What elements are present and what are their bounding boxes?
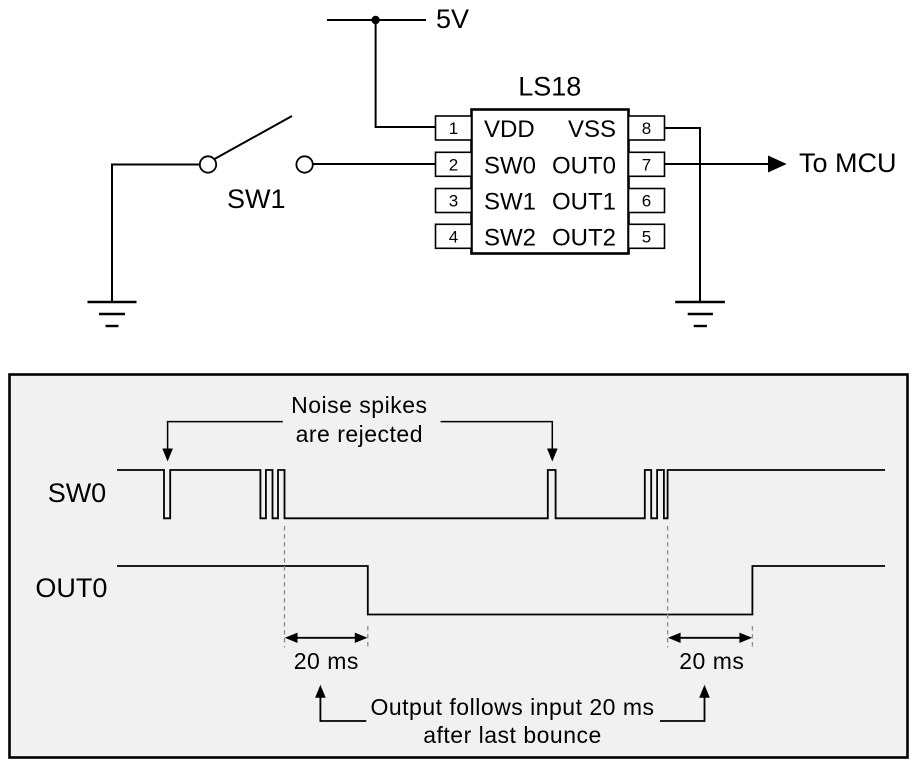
svg-text:20 ms: 20 ms xyxy=(294,648,359,674)
svg-text:SW0: SW0 xyxy=(484,152,536,179)
svg-text:6: 6 xyxy=(642,192,651,211)
pin 5 box xyxy=(629,224,665,248)
IC U1 body xyxy=(472,110,629,254)
svg-text:after last bounce: after last bounce xyxy=(423,722,602,748)
svg-text:Output follows input 20 ms: Output follows input 20 ms xyxy=(370,694,654,720)
svg-text:5V: 5V xyxy=(436,4,469,34)
pin 2 box xyxy=(436,152,472,176)
wire switch left to ground xyxy=(112,165,200,303)
svg-text:7: 7 xyxy=(642,156,651,175)
pin 8 box xyxy=(629,116,665,140)
wire pin 8 to ground xyxy=(665,128,701,302)
svg-text:are rejected: are rejected xyxy=(296,421,423,447)
arrowhead to MCU xyxy=(768,156,787,173)
pin 4 box xyxy=(436,224,472,248)
wire switch to pin 2 xyxy=(313,163,436,165)
svg-text:2: 2 xyxy=(449,156,458,175)
svg-text:Noise spikes: Noise spikes xyxy=(291,392,427,418)
switch SW1 xyxy=(200,156,313,172)
svg-text:SW1: SW1 xyxy=(227,184,286,214)
svg-text:OUT2: OUT2 xyxy=(552,225,616,252)
svg-text:20 ms: 20 ms xyxy=(679,648,744,674)
svg-text:OUT0: OUT0 xyxy=(35,573,107,603)
dimension arrow 20 ms (left) xyxy=(295,637,357,639)
switch SW1 lever xyxy=(215,116,293,159)
svg-text:4: 4 xyxy=(449,228,458,247)
pin 6 box xyxy=(629,189,665,213)
bent arrow (left) pointing up xyxy=(320,696,366,721)
waveform OUT0 xyxy=(117,566,885,615)
svg-text:5: 5 xyxy=(642,228,651,247)
svg-text:VSS: VSS xyxy=(568,116,616,143)
waveform SW0 xyxy=(117,470,885,518)
svg-text:SW2: SW2 xyxy=(484,225,536,252)
svg-text:LS18: LS18 xyxy=(518,72,581,102)
dashed guide at last bounce (right) xyxy=(667,526,669,648)
wire pin 7 to MCU xyxy=(665,163,773,165)
svg-text:SW0: SW0 xyxy=(48,478,107,508)
dashed guide at OUT0 fall xyxy=(367,626,369,648)
svg-text:OUT1: OUT1 xyxy=(552,189,616,216)
timing diagram panel xyxy=(10,375,908,758)
pointer arrow to second noise spike xyxy=(441,422,553,450)
svg-text:8: 8 xyxy=(642,119,651,138)
wire 5V to pin 1 (vertical) xyxy=(376,20,436,127)
ground (left) xyxy=(88,302,137,326)
node 5V rail xyxy=(327,19,426,21)
pin 7 box xyxy=(629,152,665,176)
svg-text:3: 3 xyxy=(449,192,458,211)
junction dot xyxy=(371,16,379,24)
svg-text:VDD: VDD xyxy=(484,116,535,143)
pin 3 box xyxy=(436,189,472,213)
svg-text:OUT0: OUT0 xyxy=(552,152,616,179)
svg-text:1: 1 xyxy=(449,119,458,138)
svg-text:SW1: SW1 xyxy=(484,189,536,216)
pointer arrow to first noise spike xyxy=(168,422,283,450)
dashed guide at last bounce (left) xyxy=(284,526,286,648)
ground (right) xyxy=(675,302,725,326)
bent arrow (right) pointing up xyxy=(660,696,705,721)
dimension arrow 20 ms (right) xyxy=(678,637,742,639)
pin 1 box xyxy=(436,116,472,140)
dashed guide at OUT0 rise xyxy=(751,626,753,648)
svg-text:To MCU: To MCU xyxy=(799,148,897,178)
